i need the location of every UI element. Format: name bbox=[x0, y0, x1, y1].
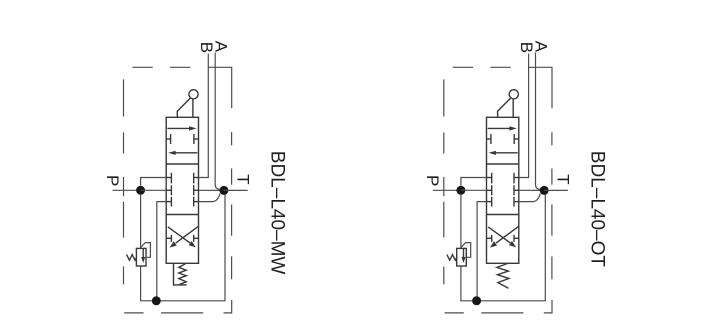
right valve relief valve pilot line bbox=[461, 243, 471, 258]
left valve wire P to valve upper stub bbox=[141, 178, 167, 186]
right valve wire T junction down to tank loop bbox=[481, 194, 546, 300]
left valve crossed section side marks bbox=[166, 237, 171, 239]
svg-text:P: P bbox=[423, 175, 442, 186]
left valve wire P to valve mid stub bbox=[141, 189, 167, 191]
right valve relief valve flow arrow bbox=[463, 249, 465, 258]
right valve wire B line bbox=[519, 54, 529, 178]
right valve wire relief valve supply bbox=[460, 195, 462, 249]
left valve envelope dashed boundary (left edge) bbox=[123, 79, 125, 116]
right valve relief valve spring bbox=[447, 255, 457, 261]
right valve manual lever arms bbox=[512, 99, 514, 118]
right valve wire T port bbox=[544, 189, 568, 191]
left valve wire B line bbox=[199, 54, 209, 178]
right valve envelope dashed boundary (top edge) bbox=[453, 66, 473, 68]
right valve crossed section side marks bbox=[487, 237, 492, 239]
left valve wire lower stub hooking to T junction bbox=[199, 193, 221, 201]
right valve wire lower stub hooking to T junction bbox=[519, 193, 541, 201]
left valve wire B branch to envelope corner bbox=[208, 67, 231, 108]
svg-text:T: T bbox=[554, 174, 573, 184]
right valve junction dot T bbox=[540, 186, 549, 195]
left valve wire relief valve supply bbox=[140, 195, 142, 249]
right valve wire P to valve upper stub bbox=[461, 178, 487, 186]
left valve wire A line curving to T junction bbox=[215, 53, 220, 190]
right valve manual lever knob bbox=[509, 90, 518, 99]
left valve directional valve body bbox=[166, 117, 198, 263]
right valve relief valve body bbox=[457, 248, 467, 266]
right valve valve position divider 2 bbox=[487, 214, 519, 216]
left valve neutral position blocked ports bbox=[166, 177, 171, 179]
left valve wire valve to T junction bbox=[199, 189, 224, 191]
left valve junction dot bottom bbox=[152, 296, 161, 305]
right valve crossed flow arrows section bbox=[488, 227, 510, 243]
left valve wire P port bbox=[113, 189, 141, 191]
right valve wire B branch to envelope corner bbox=[529, 67, 552, 108]
right valve wire valve to T junction bbox=[519, 189, 544, 191]
svg-text:A: A bbox=[211, 41, 230, 53]
right valve blocked port marks mid bbox=[490, 134, 492, 144]
right valve envelope dashed boundary (bottom edge with corner) bbox=[445, 312, 464, 314]
right valve wire tank loop bottom left bbox=[461, 266, 477, 300]
left valve relief valve pilot line bbox=[141, 243, 151, 258]
svg-text:T: T bbox=[233, 174, 252, 184]
svg-text:P: P bbox=[103, 175, 122, 186]
left valve relief valve flow arrow bbox=[142, 249, 144, 258]
left valve relief valve body bbox=[136, 248, 146, 266]
left valve wire T port bbox=[224, 189, 248, 191]
left valve envelope dashed boundary (bottom edge with corner) bbox=[124, 312, 143, 314]
right valve directional valve body bbox=[487, 117, 519, 263]
right valve neutral position blocked ports bbox=[487, 177, 492, 179]
left valve spool position arrow (right) bbox=[167, 127, 190, 129]
left valve junction dot T bbox=[219, 186, 228, 195]
left valve manual lever arms bbox=[192, 99, 194, 118]
left valve wire bypass from valve to bottom bbox=[157, 202, 166, 297]
left valve relief valve spring bbox=[127, 255, 137, 261]
left valve junction dot P bbox=[136, 186, 145, 195]
right valve wire bypass from valve to bottom bbox=[477, 202, 486, 297]
left valve return spring with cap bbox=[174, 263, 187, 285]
left valve envelope dashed boundary (top edge) bbox=[133, 66, 153, 68]
svg-text:A: A bbox=[532, 41, 551, 53]
right valve envelope dashed boundary (left edge) bbox=[443, 79, 445, 116]
left valve valve position divider 1 bbox=[166, 163, 198, 165]
right valve wire P port bbox=[433, 189, 461, 191]
right valve envelope dashed boundary (right edge) bbox=[551, 132, 553, 145]
left valve wire T junction down to tank loop bbox=[160, 194, 225, 300]
left valve valve position divider 2 bbox=[166, 214, 198, 216]
left valve envelope dashed boundary (right edge) bbox=[231, 132, 233, 145]
right valve junction dot P bbox=[456, 186, 465, 195]
right valve valve position divider 1 bbox=[487, 163, 519, 165]
right valve spool position arrow (left) bbox=[495, 152, 518, 154]
left valve crossed flow arrows section bbox=[168, 227, 190, 243]
left valve blocked port marks mid bbox=[170, 134, 172, 144]
right valve spool position arrow (right) bbox=[488, 127, 511, 129]
left valve spool position arrow (left) bbox=[175, 152, 198, 154]
right valve junction dot bottom bbox=[472, 296, 481, 305]
right valve wire A line curving to T junction bbox=[536, 53, 541, 190]
left valve manual lever knob bbox=[189, 90, 198, 99]
svg-text:BDL–L40–MW: BDL–L40–MW bbox=[266, 151, 287, 275]
svg-text:BDL–L40–OT: BDL–L40–OT bbox=[587, 151, 608, 268]
right valve return spring bbox=[497, 264, 509, 289]
left valve wire tank loop bottom left bbox=[141, 266, 157, 300]
right valve wire P to valve mid stub bbox=[461, 189, 487, 191]
